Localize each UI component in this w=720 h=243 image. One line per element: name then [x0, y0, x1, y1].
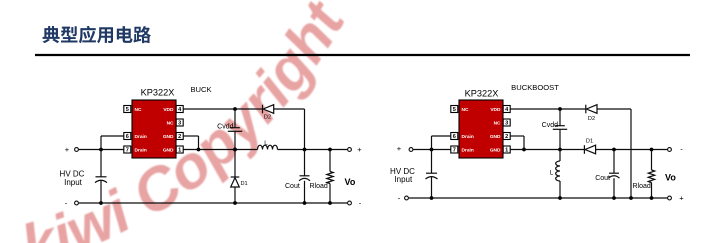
wire input plus to pin7 [79, 149, 124, 151]
svg-text:5: 5 [453, 107, 456, 113]
svg-text:Drain: Drain [135, 147, 147, 153]
wire rail to Rload [329, 150, 331, 172]
node Cvdd bottom [233, 148, 237, 152]
svg-text:Vo: Vo [345, 177, 356, 187]
svg-text:D1: D1 [586, 139, 593, 145]
svg-text:+: + [357, 145, 362, 154]
node pin2 join right [522, 148, 526, 152]
wire D2 corner down to bottom rail [630, 109, 632, 198]
U1 pin 4 VDD [176, 106, 183, 113]
svg-text:7: 7 [126, 148, 129, 154]
output + terminal [348, 148, 352, 152]
U1 pin 2 GND [176, 133, 183, 140]
svg-text:+: + [679, 194, 684, 203]
wire rail to L [559, 150, 561, 162]
svg-text:6: 6 [453, 134, 456, 140]
diode D2 [262, 105, 264, 114]
svg-text:3: 3 [178, 121, 181, 127]
svg-text:Input: Input [394, 175, 413, 184]
input - terminal [75, 201, 79, 205]
wire corner to Cout [304, 150, 306, 176]
wire VDD to corner [183, 108, 262, 110]
diode D2 right [585, 105, 587, 114]
U2 pin 5 NC [451, 106, 458, 113]
capacitor Cin [96, 176, 107, 178]
output - terminal [348, 201, 352, 205]
wire Rload to bottom rail right [651, 183, 653, 199]
svg-text:NC: NC [462, 107, 469, 113]
svg-text:1: 1 [178, 148, 181, 154]
svg-text:2: 2 [178, 134, 181, 140]
svg-text:NC: NC [135, 107, 142, 113]
svg-text:2: 2 [505, 134, 508, 140]
svg-text:Input: Input [64, 178, 83, 187]
U2 pin 7 Drain [451, 146, 458, 153]
U1 pin 1 GND [176, 146, 183, 153]
wire Rload to bottom rail [329, 184, 331, 204]
wire pin2 jog [183, 135, 198, 137]
node Cout bottom [303, 201, 307, 205]
svg-text:+: + [397, 144, 402, 153]
U1 pin 7 Drain [124, 146, 131, 153]
svg-text:7: 7 [453, 148, 456, 154]
svg-text:Cout: Cout [595, 175, 610, 182]
node pin2 join [197, 148, 201, 152]
node rail-Rload [328, 148, 332, 152]
wire Cvdd to GND rail [234, 131, 236, 149]
svg-text:VDD: VDD [163, 107, 174, 113]
input - terminal right [405, 196, 409, 200]
svg-text:KP322X: KP322X [141, 88, 175, 98]
svg-text:NC: NC [167, 120, 174, 126]
node Cin bottom right [430, 196, 434, 200]
U2 pin 4 VDD [503, 106, 510, 113]
GND rail right circuit [510, 149, 584, 151]
node rail-Cout right [612, 148, 616, 152]
node D2 wire bottom [629, 196, 633, 200]
node VDD-Cvdd junction right [558, 107, 562, 111]
U1 pin 6 Drain [124, 133, 131, 140]
svg-text:+: + [65, 145, 70, 154]
wire pin2 jog right [510, 135, 524, 137]
wire corner down [304, 109, 306, 150]
wire Cout to bottom rail [304, 181, 306, 203]
svg-text:Cvdd: Cvdd [217, 123, 233, 130]
wire D1 to bottom rail [234, 187, 236, 203]
node Rload bottom [328, 201, 332, 205]
capacitor Cvdd wire upper [234, 109, 236, 128]
op IC U1 KP322X body [132, 100, 176, 158]
U1 pin 5 NC [124, 106, 131, 113]
svg-text:-: - [359, 199, 362, 208]
svg-text:D2: D2 [588, 116, 595, 122]
capacitor Cin right [426, 172, 437, 174]
svg-text:-: - [398, 194, 401, 203]
svg-text:Vo: Vo [665, 173, 676, 183]
U2 pin 2 GND [503, 133, 510, 140]
svg-text:NC: NC [494, 120, 501, 126]
output - terminal right [668, 148, 672, 152]
wire Cvdd to GND rail right [559, 129, 561, 149]
svg-text:D2: D2 [264, 115, 271, 121]
svg-text:Rload: Rload [633, 183, 651, 190]
svg-text:D1: D1 [241, 181, 248, 187]
svg-text:BUCKBOOST: BUCKBOOST [511, 83, 559, 92]
resistor Rload [327, 172, 333, 184]
svg-text:3: 3 [505, 121, 508, 127]
node D1 bottom [233, 201, 237, 205]
svg-text:GND: GND [490, 134, 501, 140]
GND rail left circuit [183, 149, 257, 151]
input + terminal [75, 148, 79, 152]
inductor L [258, 145, 278, 149]
node Cin bottom [99, 201, 103, 205]
wire junction down to Cin right [431, 150, 433, 174]
svg-text:-: - [680, 145, 683, 154]
bottom rail left circuit [79, 202, 348, 204]
svg-text:Drain: Drain [462, 134, 474, 140]
wire junction up to pin6 right [431, 136, 433, 150]
diode D1 [231, 176, 240, 178]
capacitor Cvdd right [555, 125, 565, 127]
wire L to bottom rail [559, 181, 561, 198]
output + terminal right [668, 196, 672, 200]
svg-text:1: 1 [505, 148, 508, 154]
wire junction down to Cin [100, 150, 102, 177]
capacitor Cout right [609, 172, 619, 174]
node Cout bottom right [612, 196, 616, 200]
wire junction up to pin6 [100, 136, 102, 150]
node VDD-Cvdd junction [233, 107, 237, 111]
capacitor Cvdd right wire [559, 109, 561, 126]
svg-text:6: 6 [126, 134, 129, 140]
node rail-D1 [233, 148, 237, 152]
U2 pin 1 GND [503, 146, 510, 153]
capacitor Cvdd [230, 127, 240, 129]
node rail-Rload right [650, 148, 654, 152]
U2 pin 6 Drain [451, 133, 458, 140]
svg-text:GND: GND [490, 147, 501, 153]
svg-text:GND: GND [163, 134, 174, 140]
node input junction right [430, 148, 434, 152]
svg-text:Drain: Drain [462, 147, 474, 153]
svg-text:L: L [550, 170, 554, 177]
node L bottom [558, 196, 562, 200]
svg-text:Cvdd: Cvdd [542, 122, 558, 129]
bottom rail right circuit [409, 197, 668, 199]
node Cvdd bottom right [558, 148, 562, 152]
svg-text:GND: GND [163, 147, 174, 153]
svg-text:L: L [264, 140, 268, 147]
svg-text:KP322X: KP322X [465, 89, 499, 99]
wire rail to D1 [234, 150, 236, 178]
wire rail to Cout right [613, 150, 615, 174]
title underline rule [35, 54, 690, 56]
node Rload bottom right [650, 196, 654, 200]
input + terminal right [409, 148, 413, 152]
U2 pin 3 NC [503, 119, 510, 126]
op IC U2 KP322X body [459, 100, 503, 158]
U1 pin 3 NC [176, 119, 183, 126]
svg-text:Rload: Rload [310, 183, 328, 190]
wire Cout to bottom rail right [613, 178, 615, 198]
svg-text:Drain: Drain [135, 134, 147, 140]
svg-text:5: 5 [126, 107, 129, 113]
inductor L right [556, 161, 560, 181]
diode D1 right [583, 145, 585, 154]
wire input plus to pin7 right [413, 149, 451, 151]
wire rail to Rload right [651, 150, 653, 171]
page title 典型应用电路 [43, 26, 151, 43]
resistor Rload right [648, 170, 654, 183]
capacitor Cout [300, 175, 310, 177]
svg-text:VDD: VDD [490, 107, 501, 113]
wire VDD to corner right [510, 108, 586, 110]
node input junction [99, 148, 103, 152]
wire Cin to bottom rail right [431, 177, 433, 198]
svg-text:BUCK: BUCK [190, 85, 211, 94]
svg-text:Cout: Cout [285, 183, 300, 190]
node rail-Cout [303, 148, 307, 152]
wire Cin to bottom rail [100, 180, 102, 203]
